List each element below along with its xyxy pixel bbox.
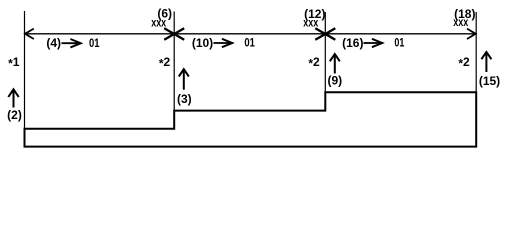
svg-text:*2: *2 xyxy=(308,55,320,71)
svg-text:xxx: xxx xyxy=(303,15,318,29)
inline arrow segment 1 xyxy=(62,42,79,44)
svg-text:(3): (3) xyxy=(177,92,192,106)
svg-text:(10): (10) xyxy=(192,36,213,50)
svg-text:xxx: xxx xyxy=(453,15,468,29)
boundary line V2 xyxy=(173,12,175,130)
callout arrow (2) xyxy=(13,91,15,108)
svg-text:xxx: xxx xyxy=(151,15,166,29)
boundary line V4 xyxy=(475,12,477,147)
boundary line V3 xyxy=(324,12,326,111)
arrowhead left at V1 xyxy=(25,29,34,39)
callout arrow (9) xyxy=(334,55,336,73)
inline arrow segment 3 xyxy=(364,42,380,44)
callout arrow (15) xyxy=(485,53,487,72)
svg-text:01: 01 xyxy=(244,36,255,50)
staircase waveform outline xyxy=(25,92,477,146)
svg-text:01: 01 xyxy=(89,36,100,50)
callout arrow (3) xyxy=(183,71,185,90)
svg-text:*1: *1 xyxy=(8,55,20,71)
svg-text:(9): (9) xyxy=(327,74,342,88)
svg-text:(15): (15) xyxy=(479,74,500,88)
svg-text:(16): (16) xyxy=(342,36,363,50)
svg-text:(4): (4) xyxy=(46,36,61,50)
svg-text:01: 01 xyxy=(394,36,404,50)
svg-text:(2): (2) xyxy=(7,108,22,122)
dimension line xyxy=(25,33,477,35)
double arrowhead X at V3 xyxy=(315,28,335,40)
double arrowhead X at V2 xyxy=(164,28,184,40)
inline arrow segment 2 xyxy=(214,42,230,44)
svg-text:*2: *2 xyxy=(458,55,470,71)
arrowhead right at V4 xyxy=(467,29,476,39)
boundary line V1 xyxy=(24,11,26,147)
svg-text:*2: *2 xyxy=(159,55,171,71)
